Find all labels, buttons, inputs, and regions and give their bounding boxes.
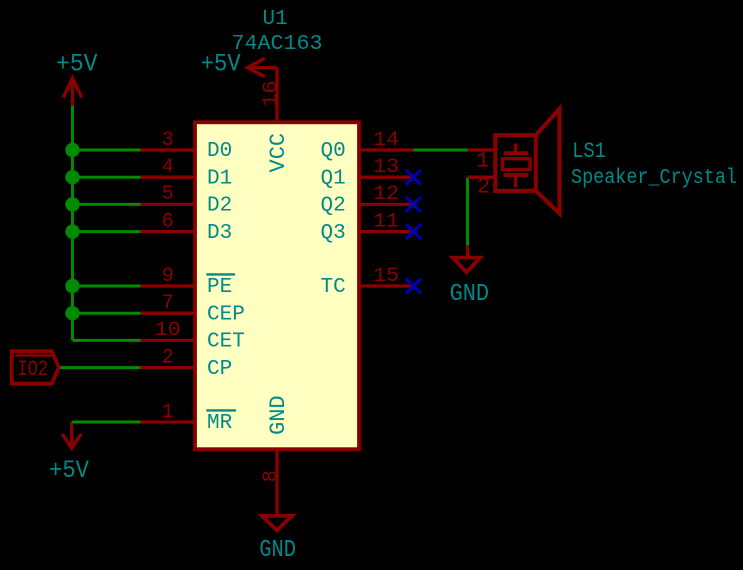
no-connect X at Q3	[406, 224, 421, 239]
svg-text:+5V: +5V	[49, 456, 89, 485]
pin 2 (CP) stub	[141, 366, 195, 369]
pin name D2	[207, 195, 232, 218]
svg-text:7: 7	[162, 292, 174, 315]
power label GND (bottom)	[259, 537, 296, 564]
svg-text:MR: MR	[207, 412, 233, 435]
value 74AC163	[232, 33, 323, 56]
pin 13 (Q1) stub	[359, 176, 413, 179]
pin name CEP	[207, 303, 245, 326]
wire IO2 to CP	[60, 366, 141, 369]
speaker pin 1 stub	[468, 148, 496, 151]
wire bus to PE	[73, 285, 141, 288]
pin 2 number	[162, 346, 174, 369]
svg-text:CET: CET	[207, 331, 245, 354]
pin 13 number	[373, 156, 399, 179]
pin 11 (Q3) stub	[359, 230, 413, 233]
pin name Q2	[320, 195, 345, 218]
svg-text:2: 2	[162, 346, 174, 369]
svg-text:10: 10	[155, 319, 181, 342]
pin 12 (Q2) stub	[359, 203, 413, 206]
pin 15 (TC) stub	[359, 284, 413, 287]
wire bus to D3	[73, 230, 141, 233]
wire speaker pin 2 to GND	[466, 177, 469, 245]
pin 10 (CET) stub	[141, 339, 195, 342]
svg-text:D1: D1	[207, 167, 232, 190]
pin 14 number	[373, 129, 399, 152]
power label GND (speaker)	[450, 281, 490, 308]
pin 16 number	[260, 80, 283, 107]
power symbol +5V (top-left) stem	[71, 78, 74, 106]
PE overline	[206, 273, 235, 275]
svg-text:9: 9	[162, 265, 174, 288]
crystal bottom lead	[514, 175, 518, 187]
pin 9 number	[162, 265, 174, 288]
svg-text:15: 15	[373, 265, 399, 288]
wire MR to +5V	[72, 421, 141, 424]
speaker pin 1 number	[476, 149, 489, 174]
crystal top lead	[514, 144, 518, 154]
svg-text:1: 1	[162, 401, 174, 424]
pin name CET	[207, 331, 245, 354]
power symbol +5V (MR) stem	[70, 422, 73, 448]
pin name PE	[207, 276, 232, 299]
power symbol +5V (MR) arrowhead	[62, 434, 81, 448]
svg-text:8: 8	[260, 470, 283, 482]
svg-text:TC: TC	[320, 276, 345, 299]
pin 11 number	[373, 210, 399, 233]
svg-text:12: 12	[373, 183, 399, 206]
power symbol GND (bottom) triangle	[262, 516, 292, 531]
svg-text:GND: GND	[266, 395, 291, 435]
svg-text:13: 13	[373, 156, 399, 179]
pin name D0	[207, 140, 232, 163]
pin 15 number	[373, 265, 399, 288]
pin 14 (Q0) stub	[359, 148, 413, 151]
pin 12 number	[373, 183, 399, 206]
pin 7 number	[162, 292, 174, 315]
svg-text:D2: D2	[207, 195, 232, 218]
wire Q0 to speaker pin 1	[413, 149, 467, 152]
junction at D1 row	[65, 170, 79, 184]
pin 4 number	[162, 156, 174, 179]
pin 1 (MR) stub	[141, 420, 195, 423]
power symbol GND (speaker) stem	[466, 245, 469, 257]
junction at D0 row	[65, 143, 79, 157]
junction at D3 row	[65, 224, 79, 238]
svg-text:Q0: Q0	[320, 140, 345, 163]
wire bus to CEP	[73, 312, 141, 315]
pin 5 (D2) stub	[141, 203, 195, 206]
pin 7 (CEP) stub	[141, 312, 195, 315]
reference U1	[263, 8, 288, 31]
pin name D3	[207, 222, 232, 245]
pin name VCC	[266, 133, 291, 173]
junction at PE row	[65, 279, 79, 293]
IO2 overline	[15, 354, 51, 357]
pin name MR	[207, 412, 233, 435]
pin 6 (D3) stub	[141, 230, 195, 233]
speaker pin 2 number	[477, 175, 490, 200]
svg-text:D0: D0	[207, 140, 232, 163]
hierarchical label IO2 text	[18, 357, 49, 382]
power label +5V (MR)	[49, 456, 89, 485]
value Speaker_Crystal	[571, 167, 737, 190]
wire bus to D0	[73, 149, 141, 152]
no-connect X at Q1	[406, 170, 421, 185]
svg-text:+5V: +5V	[56, 50, 98, 79]
svg-text:Q1: Q1	[320, 167, 345, 190]
reference LS1	[572, 139, 606, 164]
pin 8 (GND) stub	[275, 449, 278, 503]
power symbol +5V (top-left) arrowhead	[63, 78, 81, 98]
speaker pin 2 stub	[468, 176, 496, 179]
speaker LS1 horn	[536, 109, 560, 214]
power symbol GND (speaker) triangle	[453, 258, 480, 273]
svg-text:D3: D3	[207, 222, 232, 245]
svg-text:Q3: Q3	[320, 222, 345, 245]
power symbol +5V (VCC) stem	[248, 66, 278, 69]
svg-text:74AC163: 74AC163	[232, 33, 323, 56]
pin 10 number	[155, 319, 181, 342]
wire bus to D2	[73, 203, 141, 206]
pin 8 number	[260, 470, 283, 482]
svg-text:+5V: +5V	[201, 50, 241, 79]
svg-text:CP: CP	[207, 358, 232, 381]
power symbol GND (bottom) stem	[275, 503, 278, 516]
IC U1 body	[195, 122, 359, 449]
svg-text:6: 6	[162, 210, 174, 233]
pin 1 number	[162, 401, 174, 424]
svg-text:3: 3	[162, 129, 174, 152]
svg-text:14: 14	[373, 129, 399, 152]
pin 3 (D0) stub	[141, 148, 195, 151]
pin name Q0	[320, 140, 345, 163]
svg-text:11: 11	[373, 210, 399, 233]
crystal box	[503, 159, 531, 170]
wire bus to CET	[73, 339, 141, 342]
power symbol +5V (VCC) arrowhead	[248, 58, 265, 76]
pin 6 number	[162, 210, 174, 233]
junction at D2 row	[65, 197, 79, 211]
svg-text:GND: GND	[450, 281, 490, 308]
svg-text:Q2: Q2	[320, 195, 345, 218]
pin name CP	[207, 358, 232, 381]
svg-text:5: 5	[162, 183, 174, 206]
crystal bottom plate	[504, 173, 529, 177]
crystal top plate	[504, 151, 529, 155]
svg-text:U1: U1	[263, 8, 288, 31]
pin 4 (D1) stub	[141, 176, 195, 179]
pin name Q1	[320, 167, 345, 190]
MR overline	[206, 409, 236, 411]
svg-text:16: 16	[260, 80, 283, 107]
power label +5V (VCC)	[201, 50, 241, 79]
svg-text:IO2: IO2	[18, 357, 49, 382]
svg-text:VCC: VCC	[266, 133, 291, 173]
pin 5 number	[162, 183, 174, 206]
pin name Q3	[320, 222, 345, 245]
wire vertical bus from +5V to CET	[71, 106, 74, 341]
junction at CEP row	[65, 306, 79, 320]
svg-text:Speaker_Crystal: Speaker_Crystal	[571, 167, 737, 190]
pin name D1	[207, 167, 232, 190]
svg-text:LS1: LS1	[572, 139, 606, 164]
svg-text:GND: GND	[259, 537, 296, 564]
pin 16 (VCC) stub	[275, 68, 278, 123]
pin 9 (PE) stub	[141, 284, 195, 287]
svg-text:4: 4	[162, 156, 174, 179]
power label +5V (top-left)	[56, 50, 98, 79]
svg-text:PE: PE	[207, 276, 232, 299]
pin name GND	[266, 395, 291, 435]
svg-text:CEP: CEP	[207, 303, 245, 326]
svg-text:1: 1	[476, 149, 489, 174]
speaker LS1 body	[495, 135, 536, 191]
no-connect X at TC	[406, 279, 421, 294]
hierarchical label IO2 outline	[12, 351, 59, 384]
pin 3 number	[162, 129, 174, 152]
svg-text:2: 2	[477, 175, 490, 200]
no-connect X at Q2	[406, 197, 421, 212]
pin name TC	[320, 276, 345, 299]
wire bus to D1	[73, 176, 141, 179]
